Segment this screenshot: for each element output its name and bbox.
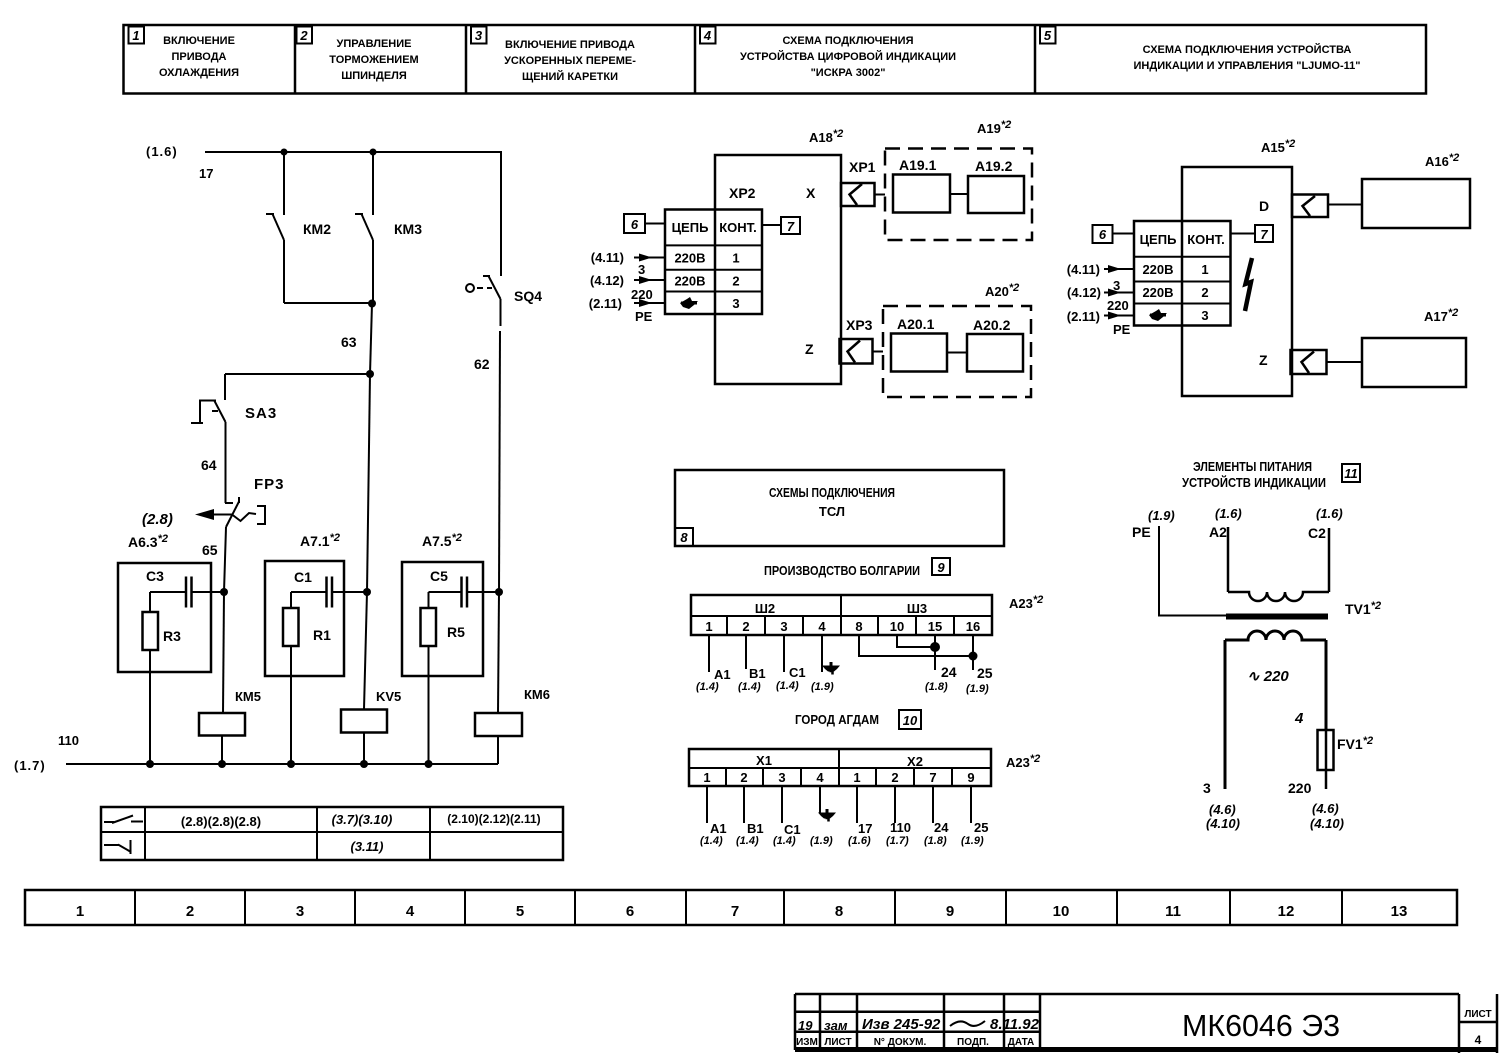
svg-text:Изв 245-92: Изв 245-92 xyxy=(862,1016,941,1033)
svg-text:ПРОИЗВОДСТВО БОЛГАРИИ: ПРОИЗВОДСТВО БОЛГАРИИ xyxy=(764,563,920,578)
junction SA3 tee xyxy=(366,370,374,378)
svg-text:(2.11): (2.11) xyxy=(589,296,622,311)
svg-text:С3: С3 xyxy=(146,568,164,584)
svg-text:(1.4): (1.4) xyxy=(700,835,723,847)
resistor R3 xyxy=(143,592,159,764)
relay coil KV5 xyxy=(341,710,387,765)
flag box 9 xyxy=(932,558,950,575)
svg-text:В1: В1 xyxy=(747,821,764,836)
svg-text:2: 2 xyxy=(186,903,194,920)
svg-text:11: 11 xyxy=(1165,903,1181,920)
svg-text:ЩЕНИЙ КАРЕТКИ: ЩЕНИЙ КАРЕТКИ xyxy=(522,70,618,83)
svg-text:ТСЛ: ТСЛ xyxy=(819,504,845,519)
svg-text:(1.6): (1.6) xyxy=(848,835,871,847)
dashed module A20 xyxy=(883,306,1031,397)
svg-text:(4.12): (4.12) xyxy=(590,273,624,288)
wire secondary left to 3 xyxy=(1224,640,1227,789)
svg-text:220В: 220В xyxy=(1142,285,1173,300)
svg-text:6: 6 xyxy=(626,903,634,920)
svg-text:КМ3: КМ3 xyxy=(394,221,422,237)
block A17 xyxy=(1362,338,1466,387)
junction KM2/KM3 join xyxy=(368,300,376,308)
junction bus KM5 xyxy=(218,760,226,768)
junction snubber A7.1 xyxy=(363,588,371,596)
svg-text:СХЕМА ПОДКЛЮЧЕНИЯ УСТРОЙСТВА: СХЕМА ПОДКЛЮЧЕНИЯ УСТРОЙСТВА xyxy=(1143,43,1352,56)
pin 15 wire 24 xyxy=(925,635,957,693)
svg-text:(1.9): (1.9) xyxy=(1148,508,1175,523)
pin 16 wire 25 xyxy=(966,635,993,695)
svg-text:ШПИНДЕЛЯ: ШПИНДЕЛЯ xyxy=(341,70,407,82)
resistor R5 xyxy=(421,592,437,764)
svg-text:220В: 220В xyxy=(674,274,705,289)
TSL note text xyxy=(769,485,895,519)
wire A20.1 to A20.2 xyxy=(947,352,967,354)
svg-text:(1.4): (1.4) xyxy=(736,835,759,847)
svg-text:ДАТА: ДАТА xyxy=(1008,1037,1035,1048)
pin table of XP2 xyxy=(665,210,762,315)
connector block Sh2 Sh3 xyxy=(691,595,992,635)
svg-text:X: X xyxy=(806,185,816,201)
svg-text:СХЕМА ПОДКЛЮЧЕНИЯ: СХЕМА ПОДКЛЮЧЕНИЯ xyxy=(783,35,914,47)
svg-text:3: 3 xyxy=(780,619,787,634)
svg-text:7: 7 xyxy=(1260,227,1268,242)
row 220V pin1 A15 xyxy=(1142,262,1208,277)
svg-text:КОНТ.: КОНТ. xyxy=(1187,232,1225,247)
svg-text:(1.7): (1.7) xyxy=(14,758,46,773)
header zone 5 box xyxy=(1040,27,1056,44)
header strip outer frame xyxy=(124,25,1427,94)
connector D xyxy=(1292,195,1362,218)
arrow (4.11) into pin1 xyxy=(634,254,665,262)
flag box 7 A15 xyxy=(1231,225,1274,242)
svg-text:19: 19 xyxy=(798,1018,813,1033)
svg-text:(1.4): (1.4) xyxy=(776,680,799,692)
svg-text:4: 4 xyxy=(406,903,415,920)
junction snubber A7.5 xyxy=(495,588,503,596)
connector XP3 xyxy=(840,339,884,364)
relay coil KM6 xyxy=(475,713,522,764)
svg-text:16: 16 xyxy=(966,619,980,634)
transformer TV1 primary winding xyxy=(1228,592,1329,601)
svg-text:(1.9): (1.9) xyxy=(810,835,833,847)
snubber box A6.3 xyxy=(118,563,211,672)
svg-text:КМ6: КМ6 xyxy=(524,687,550,702)
svg-text:6: 6 xyxy=(1099,227,1107,242)
row 220V pin2 A15 xyxy=(1142,285,1208,300)
junction top of KM3 xyxy=(370,149,377,156)
svg-text:62: 62 xyxy=(474,356,490,372)
svg-text:3: 3 xyxy=(1201,308,1208,323)
pin 8 wire to 25 xyxy=(859,635,973,656)
svg-text:8: 8 xyxy=(835,903,843,920)
svg-text:ЦЕПЬ: ЦЕПЬ xyxy=(1140,232,1177,247)
capacitor C3 xyxy=(150,577,224,608)
svg-text:ИНДИКАЦИИ И УПРАВЛЕНИЯ "LJUMO-: ИНДИКАЦИИ И УПРАВЛЕНИЯ "LJUMO-11" xyxy=(1134,60,1361,72)
svg-text:ХР2: ХР2 xyxy=(729,185,756,201)
svg-text:ИЗМ: ИЗМ xyxy=(796,1037,818,1048)
wire KV5 branch down xyxy=(367,374,370,592)
pin 1 wire A1 xyxy=(696,635,731,693)
transformer TV1 core xyxy=(1226,614,1328,620)
svg-text:10: 10 xyxy=(890,619,904,634)
svg-text:(1.4): (1.4) xyxy=(773,835,796,847)
pin 3 wire C1 xyxy=(776,635,806,692)
wire joining KM2 and KM3 bottoms xyxy=(284,302,372,304)
switch SQ4 xyxy=(466,276,501,592)
svg-text:24: 24 xyxy=(941,664,957,680)
svg-text:В1: В1 xyxy=(749,666,766,681)
contact KM2 xyxy=(266,152,284,303)
svg-text:УСТРОЙСТВ ИНДИКАЦИИ: УСТРОЙСТВ ИНДИКАЦИИ xyxy=(1182,475,1326,490)
switch SA3 manual actuator xyxy=(191,401,218,424)
svg-text:2: 2 xyxy=(891,770,898,785)
svg-text:25: 25 xyxy=(977,665,993,681)
svg-text:7: 7 xyxy=(731,903,739,920)
svg-text:ЦЕПЬ: ЦЕПЬ xyxy=(672,220,709,235)
svg-text:1: 1 xyxy=(76,903,84,920)
svg-text:11: 11 xyxy=(1344,466,1358,481)
svg-text:УСКОРЕННЫХ ПЕРЕМЕ-: УСКОРЕННЫХ ПЕРЕМЕ- xyxy=(504,55,636,67)
capacitor C5 xyxy=(429,577,500,608)
svg-text:8: 8 xyxy=(855,619,862,634)
svg-text:1: 1 xyxy=(703,770,710,785)
svg-text:(4.6): (4.6) xyxy=(1312,801,1339,816)
svg-text:15: 15 xyxy=(928,619,942,634)
svg-text:220: 220 xyxy=(631,287,653,302)
NO contact symbol row 1 xyxy=(104,816,143,824)
wire A2 down xyxy=(1227,527,1230,592)
junction top of KM2 xyxy=(281,149,288,156)
svg-text:ЭЛЕМЕНТЫ ПИТАНИЯ: ЭЛЕМЕНТЫ ПИТАНИЯ xyxy=(1193,459,1312,474)
svg-text:Z: Z xyxy=(805,341,814,357)
svg-text:3: 3 xyxy=(732,296,739,311)
svg-text:R1: R1 xyxy=(313,627,331,643)
header zone 1 text xyxy=(159,35,239,79)
header zone 3 text xyxy=(504,39,636,83)
svg-text:(4.10): (4.10) xyxy=(1310,816,1344,831)
block A16 xyxy=(1362,179,1470,228)
svg-text:1: 1 xyxy=(705,619,712,634)
svg-text:220В: 220В xyxy=(1142,262,1173,277)
svg-text:110: 110 xyxy=(890,820,911,835)
TSL note box xyxy=(675,470,1004,546)
svg-text:220: 220 xyxy=(1288,780,1312,796)
svg-text:9: 9 xyxy=(946,903,954,920)
svg-text:9: 9 xyxy=(967,770,974,785)
svg-text:(1.8): (1.8) xyxy=(924,835,947,847)
svg-text:4: 4 xyxy=(703,28,712,43)
connector Z xyxy=(1291,350,1363,374)
svg-text:2: 2 xyxy=(740,770,747,785)
X1 pin 1 wire A1 xyxy=(700,786,727,847)
svg-text:(4.10): (4.10) xyxy=(1206,816,1240,831)
pin 10 wire to 24 xyxy=(897,635,935,647)
svg-text:(2.8): (2.8) xyxy=(142,511,173,528)
svg-text:SQ4: SQ4 xyxy=(514,288,542,304)
svg-text:Х1: Х1 xyxy=(756,753,772,768)
svg-text:(2.11): (2.11) xyxy=(1067,309,1100,324)
svg-text:10: 10 xyxy=(903,713,918,728)
arrow (2.11) into pin3 xyxy=(634,299,665,307)
junction bus R1 xyxy=(287,760,295,768)
svg-text:Х2: Х2 xyxy=(907,754,923,769)
svg-text:(1.9): (1.9) xyxy=(811,681,834,693)
FP3 heater element and bracket xyxy=(232,506,265,524)
svg-text:8.11.92: 8.11.92 xyxy=(990,1016,1040,1033)
header zone 4 box xyxy=(700,27,716,44)
svg-text:КМ2: КМ2 xyxy=(303,221,331,237)
flag box 11 xyxy=(1342,464,1360,482)
svg-text:ГОРОД АГДАМ: ГОРОД АГДАМ xyxy=(795,712,879,727)
wire A19.1 to A19.2 xyxy=(950,193,968,195)
pin numbers Sh2 Sh3 xyxy=(705,619,980,634)
flag box 6 xyxy=(624,214,665,233)
svg-text:2: 2 xyxy=(299,28,308,43)
block A20.1 xyxy=(891,334,947,372)
flag box 10 xyxy=(899,710,921,729)
svg-text:(1.6): (1.6) xyxy=(146,144,178,159)
ruler numbers xyxy=(76,903,1408,920)
svg-text:2: 2 xyxy=(742,619,749,634)
power elements title xyxy=(1182,459,1326,490)
svg-text:Ш3: Ш3 xyxy=(907,601,927,616)
svg-text:4: 4 xyxy=(1475,1033,1482,1047)
thermal contact FP3 xyxy=(224,497,239,592)
svg-text:N° ДОКУМ.: N° ДОКУМ. xyxy=(874,1037,927,1048)
svg-text:ТОРМОЖЕНИЕМ: ТОРМОЖЕНИЕМ xyxy=(329,54,418,66)
pin 2 wire B1 xyxy=(738,635,766,693)
svg-text:220: 220 xyxy=(1107,298,1129,313)
arrow (2.11) into A15 pin3 xyxy=(1104,312,1134,320)
contact SA3 xyxy=(214,374,226,503)
svg-text:3: 3 xyxy=(475,28,483,43)
svg-text:110: 110 xyxy=(58,733,79,748)
revision row headers xyxy=(796,1037,1034,1048)
svg-text:А19.2: А19.2 xyxy=(975,158,1013,174)
svg-text:(3.11): (3.11) xyxy=(351,839,384,854)
svg-text:(2.8)(2.8)(2.8): (2.8)(2.8)(2.8) xyxy=(181,814,261,829)
svg-text:4: 4 xyxy=(818,619,826,634)
fuse FV1*2 xyxy=(1318,730,1334,789)
svg-text:7: 7 xyxy=(929,770,936,785)
junction bus R5 xyxy=(425,760,433,768)
svg-text:8: 8 xyxy=(680,530,688,545)
arrow to (2.8) xyxy=(195,509,232,520)
flag box 7 xyxy=(762,217,800,234)
svg-text:12: 12 xyxy=(1278,903,1295,920)
svg-text:ХР1: ХР1 xyxy=(849,159,876,175)
svg-text:Z: Z xyxy=(1259,352,1268,368)
contact KM3 xyxy=(355,152,373,304)
junction bus R3 xyxy=(146,760,154,768)
wire KV5 branch to coil xyxy=(364,592,367,709)
svg-text:R3: R3 xyxy=(163,628,181,644)
X2 pin 1 wire 17 xyxy=(848,786,872,847)
svg-text:УСТРОЙСТВА ЦИФРОВОЙ ИНДИКАЦИИ: УСТРОЙСТВА ЦИФРОВОЙ ИНДИКАЦИИ xyxy=(740,50,956,63)
row 220V pin2 xyxy=(674,274,739,289)
header zone 1 box xyxy=(129,27,145,44)
svg-text:МК6046 Э3: МК6046 Э3 xyxy=(1182,1008,1340,1043)
relay coil KM5 xyxy=(199,713,245,764)
svg-text:С2: С2 xyxy=(1308,525,1326,541)
arrow (4.12) into A15 pin2 xyxy=(1104,289,1134,297)
header zone 2 box xyxy=(297,27,313,44)
svg-text:3: 3 xyxy=(638,262,645,277)
block A19.2 xyxy=(968,176,1024,213)
wire PE to core xyxy=(1159,526,1226,616)
svg-text:3: 3 xyxy=(1203,780,1211,796)
bottom column ruler xyxy=(25,890,1457,925)
X2 pin 9 wire 25 xyxy=(961,786,988,847)
connector XP1 xyxy=(841,183,885,206)
svg-text:(1.9): (1.9) xyxy=(961,835,984,847)
svg-text:∿ 220: ∿ 220 xyxy=(1247,668,1289,685)
svg-text:А1: А1 xyxy=(710,821,727,836)
svg-text:РЕ: РЕ xyxy=(1113,322,1131,337)
NC contact symbol row 2 xyxy=(104,840,131,854)
svg-text:(4.11): (4.11) xyxy=(591,250,624,265)
svg-text:3: 3 xyxy=(296,903,304,920)
svg-text:Ш2: Ш2 xyxy=(755,601,775,616)
svg-text:зам: зам xyxy=(824,1018,848,1033)
pin numbers X1 X2 xyxy=(703,770,974,785)
contact cross reference table xyxy=(101,807,563,860)
row 220V pin1 xyxy=(674,251,739,266)
junction bus KV5 xyxy=(360,760,368,768)
flag box 8 xyxy=(675,528,693,546)
X2 pin 7 wire 24 xyxy=(924,786,949,847)
block A20.2 xyxy=(967,334,1023,372)
revision row handwritten xyxy=(798,1016,1040,1033)
svg-text:D: D xyxy=(1259,198,1269,214)
svg-text:2: 2 xyxy=(732,274,739,289)
svg-text:KV5: KV5 xyxy=(376,689,401,704)
svg-text:А1: А1 xyxy=(714,667,731,682)
junction snubber A6.3 xyxy=(220,588,228,596)
svg-text:6: 6 xyxy=(631,217,639,232)
arrow (4.12) into pin2 xyxy=(634,276,665,284)
svg-text:17: 17 xyxy=(858,821,872,836)
svg-text:ВКЛЮЧЕНИЕ ПРИВОДА: ВКЛЮЧЕНИЕ ПРИВОДА xyxy=(505,39,635,51)
block A19.1 xyxy=(893,175,950,213)
wire C2 down xyxy=(1328,528,1331,592)
svg-text:10: 10 xyxy=(1053,903,1070,920)
svg-text:(1.4): (1.4) xyxy=(696,681,719,693)
pin 4 wire earth xyxy=(811,635,840,693)
svg-text:(1.9): (1.9) xyxy=(966,683,989,695)
svg-text:4: 4 xyxy=(1294,710,1304,727)
svg-text:А2: А2 xyxy=(1209,524,1227,540)
svg-text:СХЕМЫ ПОДКЛЮЧЕНИЯ: СХЕМЫ ПОДКЛЮЧЕНИЯ xyxy=(769,485,895,500)
svg-text:9: 9 xyxy=(937,560,945,575)
svg-text:SA3: SA3 xyxy=(245,405,277,422)
svg-text:1: 1 xyxy=(732,251,739,266)
svg-text:С5: С5 xyxy=(430,568,448,584)
dashed module A19 xyxy=(885,149,1032,241)
svg-text:7: 7 xyxy=(787,219,795,234)
svg-text:ЛИСТ: ЛИСТ xyxy=(824,1037,851,1048)
wire bottom bus 110 from (1.7) xyxy=(66,763,498,765)
X1 pin 3 wire C1 xyxy=(773,786,801,847)
svg-text:ПРИВОДА: ПРИВОДА xyxy=(171,51,226,63)
svg-text:(4.12): (4.12) xyxy=(1067,285,1101,300)
wire secondary right to fuse xyxy=(1325,640,1328,730)
X1 pin 4 wire earth xyxy=(810,786,836,847)
row earth pin3 A15 xyxy=(1149,308,1209,323)
svg-text:4: 4 xyxy=(816,770,824,785)
svg-text:FP3: FP3 xyxy=(254,476,285,493)
transformer TV1 secondary winding xyxy=(1225,631,1326,640)
wire down to KM6 coil xyxy=(498,592,499,713)
lightning symbol xyxy=(1245,258,1252,311)
svg-text:КОНТ.: КОНТ. xyxy=(719,220,757,235)
header zone 2 text xyxy=(329,38,418,82)
svg-text:(1.8): (1.8) xyxy=(925,681,948,693)
svg-text:(1.7): (1.7) xyxy=(886,835,909,847)
svg-text:(2.10)(2.12)(2.11): (2.10)(2.12)(2.11) xyxy=(447,812,540,826)
arrow (4.11) into A15 pin1 xyxy=(1104,265,1134,273)
flag box 6 A15 xyxy=(1093,225,1135,243)
wire 63 segment down xyxy=(370,304,372,375)
svg-text:5: 5 xyxy=(1044,28,1052,43)
svg-text:(4.11): (4.11) xyxy=(1067,262,1100,277)
wire tee to SA3 xyxy=(225,373,370,375)
svg-text:РЕ: РЕ xyxy=(1132,524,1151,540)
connector block X1 X2 xyxy=(689,749,991,786)
wire top bus 17 from (1.6) xyxy=(205,152,501,276)
svg-text:ОХЛАЖДЕНИЯ: ОХЛАЖДЕНИЯ xyxy=(159,67,239,79)
svg-text:А20.2: А20.2 xyxy=(973,317,1011,333)
resistor R1 xyxy=(283,592,299,764)
device box A18 xyxy=(715,155,841,384)
svg-text:1: 1 xyxy=(1201,262,1208,277)
header zone 5 text xyxy=(1134,43,1361,72)
title block grid xyxy=(795,994,1497,1053)
svg-text:(4.6): (4.6) xyxy=(1209,802,1236,817)
svg-text:А19.1: А19.1 xyxy=(899,157,937,173)
header zone 3 box xyxy=(471,27,487,44)
svg-text:А20.1: А20.1 xyxy=(897,316,935,332)
svg-text:13: 13 xyxy=(1391,903,1408,920)
svg-text:1: 1 xyxy=(132,28,139,43)
svg-text:РЕ: РЕ xyxy=(635,309,653,324)
svg-text:24: 24 xyxy=(934,820,949,835)
device box A15 xyxy=(1182,167,1292,396)
X2 pin 2 wire 110 xyxy=(886,786,911,847)
svg-text:65: 65 xyxy=(202,542,218,558)
svg-text:17: 17 xyxy=(199,166,213,181)
svg-text:63: 63 xyxy=(341,334,357,350)
svg-text:ЛИСТ: ЛИСТ xyxy=(1464,1009,1491,1020)
svg-text:ВКЛЮЧЕНИЕ: ВКЛЮЧЕНИЕ xyxy=(163,35,235,47)
svg-text:С1: С1 xyxy=(789,665,806,680)
svg-text:С1: С1 xyxy=(294,569,312,585)
wire down to KM5 coil xyxy=(223,592,224,713)
pin table of A15 xyxy=(1134,221,1231,326)
svg-text:64: 64 xyxy=(201,457,217,473)
svg-text:2: 2 xyxy=(1201,285,1208,300)
capacitor C1 xyxy=(291,577,367,608)
X1 pin 2 wire B1 xyxy=(736,786,764,847)
svg-text:220В: 220В xyxy=(674,251,705,266)
svg-text:5: 5 xyxy=(516,903,524,920)
svg-text:R5: R5 xyxy=(447,624,465,640)
svg-text:ПОДП.: ПОДП. xyxy=(957,1037,989,1048)
svg-text:ХР3: ХР3 xyxy=(846,317,873,333)
svg-text:(1.6): (1.6) xyxy=(1215,506,1242,521)
snubber box A7.1 xyxy=(265,561,344,676)
svg-text:(1.4): (1.4) xyxy=(738,681,761,693)
